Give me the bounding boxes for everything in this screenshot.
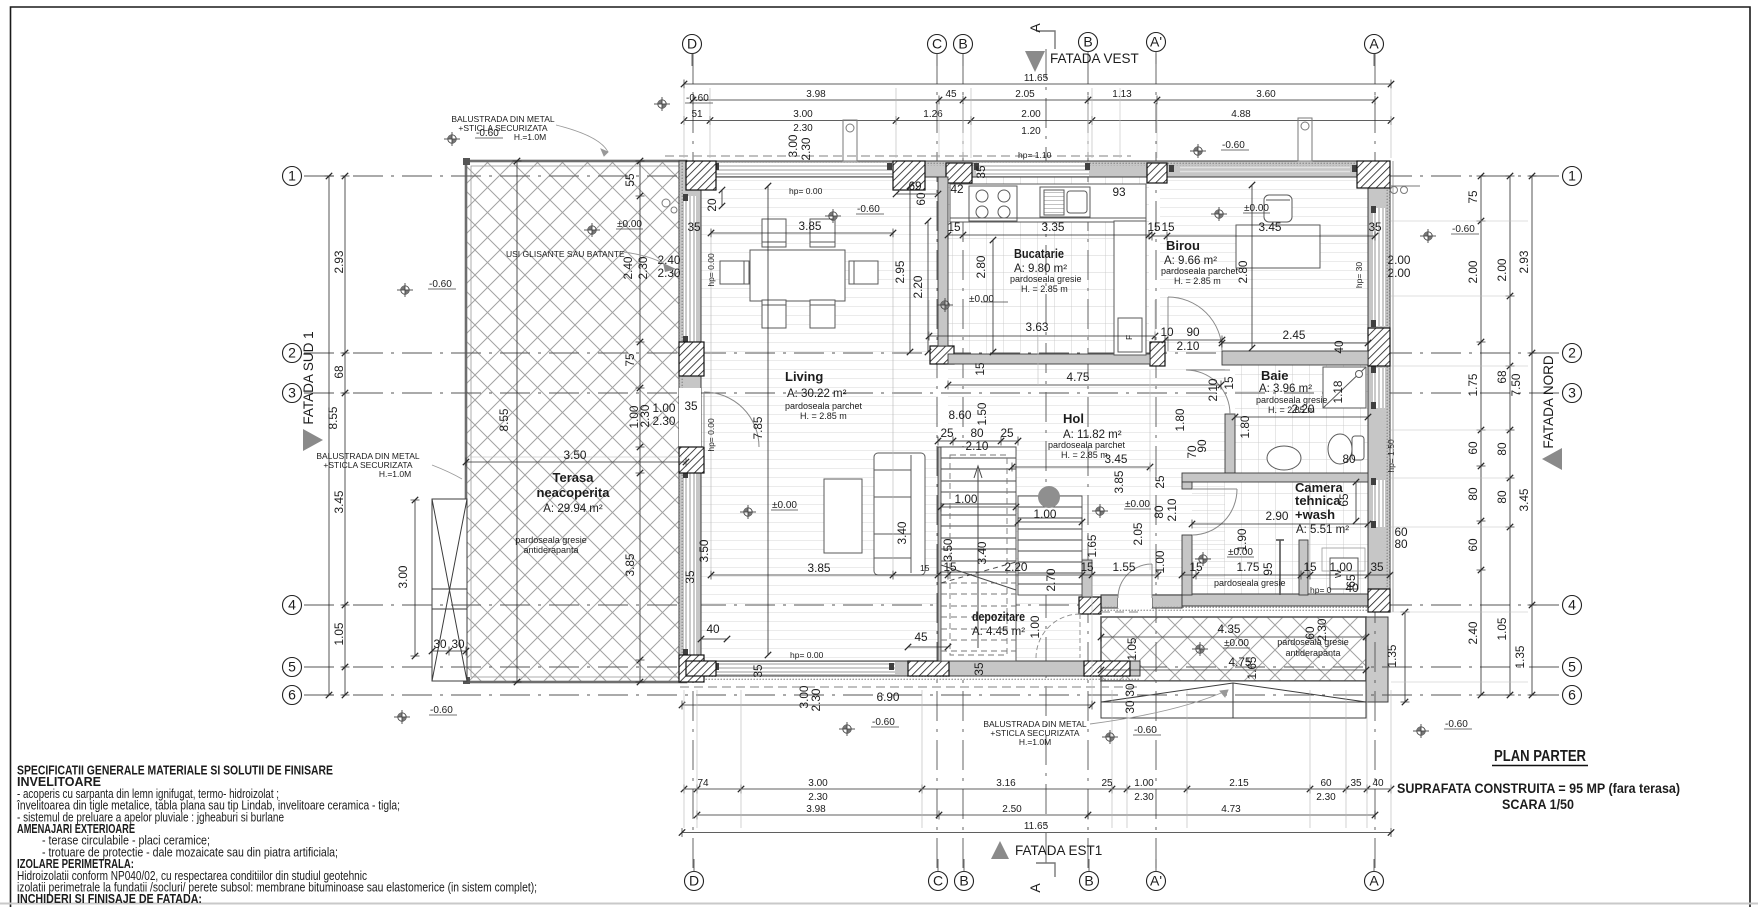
axis 5 [1563,658,1582,677]
marker ±0.00 [1192,642,1208,656]
svg-text:2.70: 2.70 [1044,568,1058,591]
svg-text:1.35: 1.35 [1513,645,1527,668]
svg-text:2.00: 2.00 [1495,258,1509,281]
svg-text:2.30: 2.30 [1134,792,1154,803]
svg-text:hp= 1.10: hp= 1.10 [1018,150,1052,160]
camera right window [1373,480,1385,527]
svg-text:2.10: 2.10 [966,439,989,453]
dim chain top walls [684,120,1391,122]
svg-text:F: F [1124,335,1134,340]
svg-text:1.05: 1.05 [1495,617,1509,640]
svg-text:6: 6 [288,687,296,703]
svg-text:neacoperita: neacoperita [537,485,611,500]
svg-text:75: 75 [1466,190,1480,204]
dim chain bottom axes [697,814,1375,816]
svg-text:3.00: 3.00 [793,109,813,120]
svg-text:3.00: 3.00 [396,565,410,588]
wall pier [1368,589,1390,612]
svg-text:2.00: 2.00 [1021,109,1041,120]
svg-text:4: 4 [288,597,296,613]
axis 3 [1563,384,1582,403]
stair cut line [941,565,1016,590]
svg-text:1.00: 1.00 [1134,778,1154,789]
svg-text:80: 80 [1495,490,1509,504]
svg-text:80: 80 [1342,452,1356,466]
stair-living wall [938,447,948,661]
exterior walls [679,161,1390,682]
svg-text:±0.00: ±0.00 [969,294,994,305]
wall pier [1079,597,1101,614]
svg-text:3.40: 3.40 [895,521,909,544]
svg-text:antiderapanta: antiderapanta [1285,648,1340,658]
baie tile floor [1235,365,1368,473]
axis 2 [283,344,302,363]
svg-text:55: 55 [623,173,637,187]
svg-text:25: 25 [1101,778,1113,789]
svg-text:2.30: 2.30 [793,123,813,134]
svg-text:INCHIDERI SI FINISAJE DE FATAD: INCHIDERI SI FINISAJE DE FATADA: [17,892,202,906]
kitchen top window [976,163,1089,176]
insulation strips [679,161,1390,682]
svg-text:25: 25 [1000,426,1014,440]
camera tehnica bottom wall [1182,594,1390,606]
svg-text:Living: Living [785,369,823,384]
marker -0.60 [394,710,410,724]
svg-text:30: 30 [1123,683,1137,697]
dim chain right segs2 [1509,176,1511,695]
svg-text:35: 35 [684,399,698,413]
porch steps below [1101,681,1366,718]
living lower window to terrace [684,473,696,655]
svg-text:1.20: 1.20 [1021,126,1041,137]
marker ±0.00 [1092,504,1108,518]
svg-text:1.80: 1.80 [1173,408,1187,431]
svg-text:45: 45 [945,89,957,100]
dim chain kitchen 3.35 [948,234,1149,236]
svg-text:4.75: 4.75 [1067,370,1090,384]
svg-text:hp= 0: hp= 0 [1310,585,1332,595]
axis 6 [283,686,302,705]
svg-text:B: B [959,873,968,889]
svg-text:1.35: 1.35 [1385,644,1399,667]
living-terrace door [704,392,759,447]
svg-text:2.80: 2.80 [1236,260,1250,283]
svg-text:35: 35 [1368,220,1382,234]
marker -0.60 [1190,144,1206,158]
svg-text:1.13: 1.13 [1112,89,1132,100]
axis D [683,35,702,54]
kitchen counter [950,184,1146,355]
interior walls [938,177,1368,661]
svg-text:A: 3.96 m²: A: 3.96 m² [1259,383,1312,395]
svg-text:60: 60 [1466,441,1480,455]
birou right window [1373,208,1385,326]
svg-text:2.05: 2.05 [1015,89,1035,100]
dim chain camera 2.90 [1192,523,1368,525]
birou bottom wall [1222,351,1368,365]
svg-text:80: 80 [970,426,984,440]
dim chain living top 3.85 [711,232,893,234]
living sliding door to terrace [684,196,696,342]
dim chain birou door 90 [1165,339,1222,341]
axis B [1080,872,1099,891]
svg-text:pardoseala parchet: pardoseala parchet [1161,266,1239,276]
svg-text:1.00: 1.00 [1028,615,1042,638]
svg-text:pardoseala gresie: pardoseala gresie [1277,637,1349,647]
wall pier [686,661,716,676]
axis 3 [283,384,302,403]
baie left wall lower [1225,414,1235,473]
svg-text:2.93: 2.93 [1517,250,1531,273]
svg-text:pardoseala parchet: pardoseala parchet [785,401,863,411]
svg-text:40: 40 [1332,340,1346,354]
living parquet floor [701,176,938,661]
svg-text:80: 80 [1394,537,1408,551]
svg-text:SCARA 1/50: SCARA 1/50 [1502,797,1574,812]
axis 1 [283,167,302,186]
svg-text:3.85: 3.85 [808,561,831,575]
svg-text:1.00: 1.00 [1330,560,1353,574]
porch right column [1366,617,1388,702]
dim chain terrace wall segs [639,161,641,682]
window jamb blocks [683,163,1376,670]
svg-text:45: 45 [914,630,928,644]
dim chain bottom walls [684,788,1391,790]
svg-text:2.40: 2.40 [621,256,635,279]
hol bottom wall left bit [1101,595,1118,608]
svg-text:11.65: 11.65 [1024,821,1049,832]
svg-text:4: 4 [1568,597,1576,613]
svg-text:B: B [1083,34,1092,50]
wall piers hatched [679,161,1390,682]
baie sink [1267,446,1301,470]
vent pipes on top wall [662,118,1420,612]
svg-text:3.98: 3.98 [806,804,826,815]
svg-text:1.00: 1.00 [1034,507,1057,521]
svg-text:A': A' [1150,34,1162,50]
svg-text:15: 15 [947,220,961,234]
svg-text:Birou: Birou [1166,238,1200,253]
exterior stair left of terrace [432,499,467,681]
svg-text:1.50: 1.50 [975,402,989,425]
entrance porch hatched [1101,617,1366,681]
wall pier [679,447,704,473]
svg-text:3.45: 3.45 [1517,488,1531,511]
axis B [1079,33,1098,52]
svg-text:2.30: 2.30 [1316,792,1336,803]
svg-text:35: 35 [974,165,988,179]
wall pier [893,161,925,190]
svg-text:-0.60: -0.60 [857,204,880,215]
marker -0.60 [825,209,841,223]
svg-text:A: A [1369,36,1379,52]
svg-text:30: 30 [433,637,447,651]
svg-text:15: 15 [1147,220,1161,234]
svg-text:15: 15 [1080,560,1094,574]
svg-text:hp= 0.00: hp= 0.00 [706,253,716,287]
svg-text:93: 93 [1112,185,1126,199]
living bottom wall [686,661,960,676]
axis A' [1147,872,1166,891]
FATADA VEST triangle [1025,51,1045,72]
svg-text:hp= 0.00: hp= 0.00 [789,186,823,196]
axis A' [1147,33,1166,52]
axis A [1365,35,1384,54]
axis B [955,872,974,891]
svg-text:SUPRAFATA CONSTRUITA = 95 MP (: SUPRAFATA CONSTRUITA = 95 MP (fara teras… [1397,781,1680,796]
svg-text:1.18: 1.18 [1331,380,1345,403]
svg-text:±0.00: ±0.00 [1125,499,1150,510]
svg-text:3.50: 3.50 [941,538,955,561]
svg-text:D: D [687,36,697,52]
axis 5 [283,658,302,677]
svg-text:USI GLISANTE SAU BATANTE: USI GLISANTE SAU BATANTE [506,249,625,259]
camera left wall lower [1182,535,1192,595]
svg-text:FATADA VEST: FATADA VEST [1050,51,1139,66]
axis D [685,872,704,891]
svg-text:3.35: 3.35 [1042,220,1065,234]
dim chain birou 3.45 [1152,235,1375,237]
camera left wall top bit [1182,482,1192,489]
svg-text:6: 6 [1568,687,1576,703]
svg-text:6.90: 6.90 [877,690,900,704]
svg-text:60: 60 [1320,778,1332,789]
left wall [679,161,701,682]
depozitare floor [948,560,1080,661]
washer [1322,548,1365,589]
svg-text:1.80: 1.80 [1238,415,1252,438]
svg-text:51: 51 [691,109,703,120]
svg-text:1.00: 1.00 [955,492,978,506]
axis 6 [1563,686,1582,705]
svg-text:35: 35 [1370,560,1384,574]
svg-text:3.45: 3.45 [332,490,346,513]
svg-text:2.10: 2.10 [1177,339,1200,353]
marker ±0.00 [1211,207,1227,221]
svg-text:74: 74 [697,778,709,789]
dim chain stair 1.00 [1018,521,1082,523]
dim chain hol 3.45 [1012,466,1150,468]
svg-text:H.=1.0M: H.=1.0M [514,132,546,142]
FATADA SUD triangle [303,429,323,451]
svg-text:-0.60: -0.60 [686,93,709,104]
axis B [954,35,973,54]
svg-text:2.50: 2.50 [1002,804,1022,815]
svg-text:3.00: 3.00 [808,778,828,789]
top wall [686,161,1390,177]
entrance door [1118,564,1152,598]
svg-text:40: 40 [1372,778,1384,789]
svg-text:2.45: 2.45 [1283,328,1306,342]
svg-text:pardoseala parchet: pardoseala parchet [1048,440,1126,450]
svg-text:hp= 30: hp= 30 [1354,262,1364,289]
dim chain bottom 6.90 [682,704,1092,706]
svg-text:±0.00: ±0.00 [1224,638,1249,649]
dim chain ext stair 3.00 [414,500,416,656]
svg-text:68: 68 [1495,370,1509,384]
stair newel [1038,486,1060,508]
dim chain bottom total [682,832,1391,834]
svg-text:pardoseala gresie: pardoseala gresie [1256,395,1328,405]
svg-text:-0.60: -0.60 [429,279,452,290]
svg-text:2.20: 2.20 [911,275,925,298]
svg-text:1.00: 1.00 [1153,550,1167,573]
svg-text:10: 10 [1160,325,1174,339]
wall pier [1147,163,1167,183]
svg-text:35: 35 [972,662,986,676]
svg-text:35: 35 [683,570,697,584]
svg-text:2.30: 2.30 [799,137,813,160]
svg-text:15: 15 [1189,560,1203,574]
svg-text:7.85: 7.85 [751,416,765,439]
svg-text:hp= 0.00: hp= 0.00 [790,650,824,660]
camera top wall [1182,473,1368,482]
svg-text:3.00: 3.00 [786,134,800,157]
living top window [716,163,893,176]
svg-text:A: A [1027,23,1043,33]
svg-text:15: 15 [973,362,987,376]
svg-text:7.50: 7.50 [1509,373,1523,396]
svg-text:3.85: 3.85 [623,553,637,576]
svg-text:pardoseala gresie: pardoseala gresie [1214,578,1286,588]
dim chain right segs3 [1531,176,1533,695]
svg-text:4.73: 4.73 [1221,804,1241,815]
dim chain kitchen 3.63 [929,335,1155,337]
svg-text:40: 40 [706,622,720,636]
svg-text:2.10: 2.10 [1165,498,1179,521]
svg-text:antiderapanta: antiderapanta [523,545,578,555]
svg-text:B: B [958,36,967,52]
tall cabinet / fridge [1114,221,1146,355]
svg-text:3.85: 3.85 [799,219,822,233]
svg-text:3.50: 3.50 [697,539,711,562]
dim chain birou 2.45 [1222,342,1368,344]
axis 1 [1563,167,1582,186]
svg-text:H. = 2.85 m: H. = 2.85 m [1174,276,1221,286]
svg-text:2.00: 2.00 [1466,260,1480,283]
wash partition stub [1299,540,1308,595]
FATADA EST triangle [991,841,1009,859]
svg-text:2.00: 2.00 [1388,253,1411,267]
dim chain top axes [693,99,1375,101]
svg-text:8.55: 8.55 [497,408,511,431]
svg-text:60: 60 [1466,538,1480,552]
wall pier [946,163,972,183]
svg-text:2.30: 2.30 [653,414,676,428]
bucatarie tile floor [948,176,1149,355]
hol parquet floor [948,364,1225,595]
svg-text:8.55: 8.55 [326,406,340,429]
door opening hol-entrance [1118,595,1152,608]
svg-text:70: 70 [1185,445,1199,459]
depozitare-hol wall [1082,560,1092,597]
svg-text:1.65: 1.65 [1085,534,1099,557]
svg-text:2: 2 [1568,345,1576,361]
svg-text:25: 25 [940,426,954,440]
svg-text:H. = 2.85 m: H. = 2.85 m [1061,450,1108,460]
stove [969,186,1017,221]
baie wc [1328,434,1364,464]
birou door [1168,297,1222,351]
svg-text:hp= 0.00: hp= 0.00 [706,418,716,452]
marker -0.60 [1102,730,1118,744]
living bottom window [716,662,895,674]
wall pier [930,346,954,364]
svg-text:-0.60: -0.60 [1445,719,1468,730]
svg-text:PLAN PARTER: PLAN PARTER [1494,748,1586,765]
svg-text:80: 80 [1466,487,1480,501]
dim chain top total [684,83,1391,85]
marker -0.60 [1413,724,1429,738]
camera tehnica door [1192,489,1237,535]
stair walk line with arrow [941,466,1016,648]
svg-text:30: 30 [1123,700,1137,714]
marker ±0.00 [1195,552,1211,566]
svg-text:-0.60: -0.60 [1134,725,1157,736]
svg-text:H. = 2.85 m: H. = 2.85 m [800,411,847,421]
svg-text:25: 25 [1153,475,1167,489]
svg-text:90: 90 [1186,325,1200,339]
marker -0.60 [839,722,855,736]
svg-text:5: 5 [288,659,296,675]
door opening living-terrace [679,388,701,447]
door swings [704,297,1237,598]
axis C [928,35,947,54]
marker -0.60 [1420,229,1436,243]
svg-text:A: 4.45 m²: A: 4.45 m² [972,626,1025,638]
svg-text:A: A [1027,883,1043,893]
axis 4 [283,596,302,615]
svg-text:+wash: +wash [1295,507,1335,522]
dim chain living-hol bottom [711,574,1158,576]
svg-text:2.80: 2.80 [974,255,988,278]
dim chain terrace 3.50 [466,461,686,463]
svg-text:±0.00: ±0.00 [772,500,797,511]
svg-text:A: 29.94 m²: A: 29.94 m² [543,503,603,515]
svg-text:3.50: 3.50 [564,448,587,462]
svg-text:A: A [1369,873,1379,889]
svg-text:2.20: 2.20 [1005,560,1028,574]
svg-text:Baie: Baie [1261,368,1288,383]
dim chain stair top 25-80-25 [938,440,1018,442]
svg-text:1: 1 [1568,168,1576,184]
depozitare dashed door [1036,614,1080,658]
wall pier [1084,661,1130,676]
svg-text:20: 20 [705,198,719,212]
svg-text:pardoseala gresie: pardoseala gresie [1010,274,1082,284]
svg-text:2.05: 2.05 [1131,522,1145,545]
balustrade notes [316,114,1087,747]
svg-text:2.15: 2.15 [1229,778,1249,789]
svg-text:±0.00: ±0.00 [1228,547,1253,558]
svg-text:8.60: 8.60 [949,408,972,422]
svg-text:3.45: 3.45 [1259,220,1282,234]
svg-text:-0.60: -0.60 [872,717,895,728]
svg-text:1.65: 1.65 [1245,656,1259,679]
svg-text:35: 35 [751,664,765,678]
svg-text:1.05: 1.05 [1125,637,1139,660]
dining table [720,219,878,328]
wall pier [686,161,716,190]
kitchen-living wall [938,177,948,346]
svg-text:Bucatarie: Bucatarie [1014,246,1064,261]
svg-text:A: 5.51 m²: A: 5.51 m² [1296,524,1349,536]
svg-text:±0.00: ±0.00 [1244,203,1269,214]
svg-text:C: C [932,36,942,52]
svg-text:3.63: 3.63 [1026,320,1049,334]
dim chain porch 4.75 [1101,669,1366,671]
svg-text:2: 2 [288,345,296,361]
